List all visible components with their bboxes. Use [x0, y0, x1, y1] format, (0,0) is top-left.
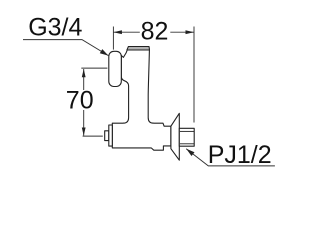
svg-text:82: 82: [141, 17, 169, 45]
svg-text:G3/4: G3/4: [28, 14, 82, 42]
svg-text:PJ1/2: PJ1/2: [208, 141, 272, 169]
svg-text:70: 70: [66, 86, 94, 114]
